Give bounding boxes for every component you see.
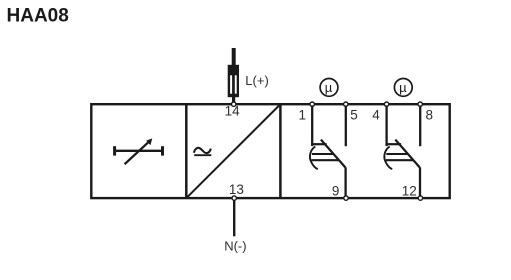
relay contact K1 (pins 1-5-9, delayed changeover): [310, 105, 346, 196]
svg-text:HAA08: HAA08: [7, 5, 69, 26]
N(-) wire: [233, 200, 235, 236]
label 8: [426, 108, 434, 123]
AC/DC symbol: [194, 148, 211, 155]
terminal node 12: [418, 196, 422, 200]
relay contact K2 (pins 4-8-12, delayed changeover): [384, 105, 420, 196]
label 5: [350, 108, 358, 123]
svg-text:4: 4: [372, 108, 380, 123]
mu indicator 2: [394, 79, 412, 97]
terminal node 8: [418, 102, 422, 106]
label 12: [402, 184, 417, 199]
svg-text:8: 8: [426, 108, 434, 123]
svg-text:µ: µ: [399, 80, 407, 95]
label 1: [299, 108, 307, 123]
label 13: [229, 182, 244, 197]
label 9: [332, 184, 340, 199]
label 4: [372, 108, 380, 123]
terminal node 1: [310, 102, 314, 106]
terminal node 4: [384, 102, 388, 106]
potentiometer (setting) symbol: [115, 138, 163, 164]
divider between setting and power sections: [185, 104, 188, 198]
svg-text:9: 9: [332, 184, 340, 199]
terminal node 5: [344, 102, 348, 106]
terminal node 13: [232, 196, 236, 200]
fuse F1: [228, 65, 239, 102]
label L(+): [245, 73, 268, 88]
svg-text:N(-): N(-): [224, 239, 246, 254]
svg-text:13: 13: [229, 182, 244, 197]
module outline box: [91, 104, 449, 198]
terminal node 9: [344, 196, 348, 200]
svg-text:12: 12: [402, 184, 417, 199]
power supply diagonal: [188, 106, 280, 197]
svg-text:1: 1: [299, 108, 307, 123]
label N(-): [224, 239, 246, 254]
svg-text:14: 14: [225, 104, 241, 119]
divider between power and contact sections: [279, 104, 282, 198]
svg-text:5: 5: [350, 108, 358, 123]
L(+) supply wire: [232, 48, 236, 66]
label 14: [225, 104, 241, 119]
title HAA08: [7, 5, 69, 26]
svg-text:µ: µ: [325, 80, 333, 95]
terminal node 14: [232, 102, 236, 106]
svg-text:L(+): L(+): [245, 73, 268, 88]
mu indicator 1: [320, 79, 338, 97]
